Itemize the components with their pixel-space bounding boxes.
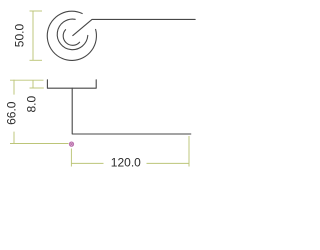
svg-text:120.0: 120.0: [111, 156, 141, 170]
svg-text:8.0: 8.0: [25, 95, 39, 112]
svg-text:50.0: 50.0: [13, 24, 27, 48]
svg-text:66.0: 66.0: [5, 101, 19, 125]
